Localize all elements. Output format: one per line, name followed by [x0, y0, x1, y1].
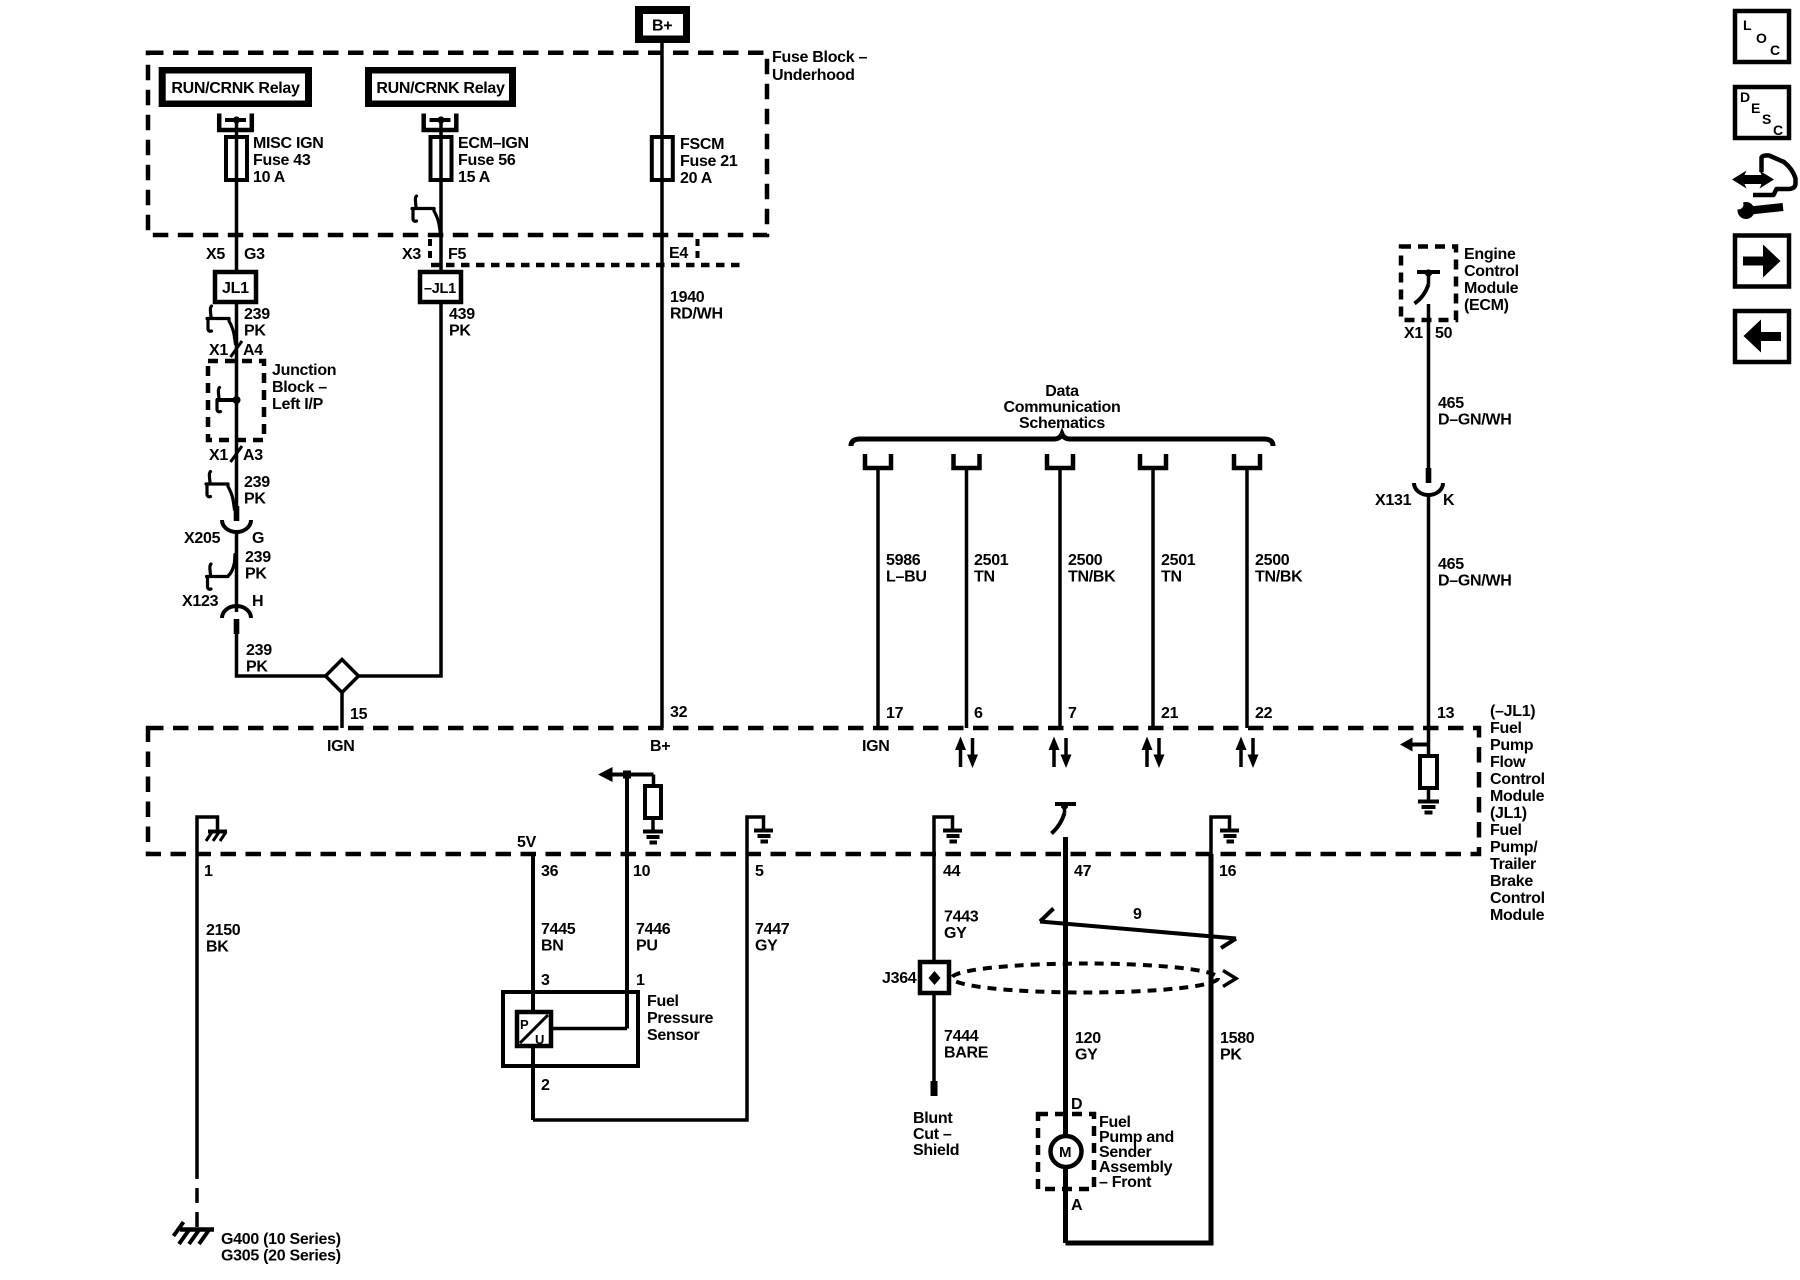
svg-text:13: 13 — [1437, 705, 1455, 722]
svg-text:(–JL1): (–JL1) — [1490, 703, 1535, 720]
svg-text:PK: PK — [244, 491, 266, 508]
svg-text:239: 239 — [244, 474, 270, 491]
svg-text:(ECM): (ECM) — [1464, 297, 1509, 314]
svg-text:22: 22 — [1255, 705, 1273, 722]
svg-text:Sensor: Sensor — [647, 1027, 700, 1044]
svg-text:15 A: 15 A — [458, 169, 491, 186]
svg-text:– Front: – Front — [1099, 1174, 1152, 1191]
svg-text:MISC IGN: MISC IGN — [253, 135, 324, 152]
svg-text:GY: GY — [755, 938, 778, 955]
svg-text:RUN/CRNK Relay: RUN/CRNK Relay — [376, 80, 505, 97]
svg-text:C: C — [1773, 122, 1783, 138]
svg-text:Fuel: Fuel — [1490, 822, 1522, 839]
svg-text:M: M — [1059, 1144, 1071, 1161]
svg-text:O: O — [1756, 30, 1767, 46]
svg-text:G400 (10 Series): G400 (10 Series) — [221, 1231, 341, 1248]
svg-text:239: 239 — [246, 642, 272, 659]
svg-text:10: 10 — [633, 863, 651, 880]
svg-text:–JL1: –JL1 — [424, 281, 456, 297]
svg-text:2150: 2150 — [206, 922, 241, 939]
svg-text:15: 15 — [350, 706, 368, 723]
svg-text:Left I/P: Left I/P — [272, 396, 324, 413]
svg-text:S: S — [1762, 111, 1771, 127]
svg-text:2501: 2501 — [974, 552, 1009, 569]
svg-text:X205: X205 — [184, 530, 221, 547]
svg-text:32: 32 — [670, 704, 688, 721]
svg-text:X131: X131 — [1375, 492, 1412, 509]
svg-text:J364: J364 — [882, 970, 917, 987]
svg-text:Trailer: Trailer — [1490, 856, 1536, 873]
svg-text:TN: TN — [1161, 569, 1182, 586]
svg-text:7443: 7443 — [944, 909, 979, 926]
svg-text:120: 120 — [1075, 1030, 1101, 1047]
svg-text:7447: 7447 — [755, 921, 790, 938]
svg-text:Module: Module — [1490, 788, 1545, 805]
svg-text:2501: 2501 — [1161, 552, 1196, 569]
svg-text:2: 2 — [541, 1077, 550, 1094]
svg-text:44: 44 — [943, 863, 961, 880]
svg-text:G305 (20 Series): G305 (20 Series) — [221, 1248, 341, 1265]
svg-text:ECM–IGN: ECM–IGN — [458, 135, 529, 152]
svg-text:X5: X5 — [206, 246, 225, 263]
svg-text:Engine: Engine — [1464, 246, 1516, 263]
svg-text:36: 36 — [541, 863, 559, 880]
svg-text:6: 6 — [974, 705, 983, 722]
svg-text:Data: Data — [1045, 383, 1079, 400]
svg-text:E: E — [1751, 100, 1760, 116]
svg-text:G: G — [252, 530, 264, 547]
svg-text:X1: X1 — [209, 342, 228, 359]
svg-text:X3: X3 — [402, 246, 421, 263]
svg-text:Module: Module — [1490, 907, 1545, 924]
svg-text:7446: 7446 — [636, 921, 671, 938]
svg-text:K: K — [1443, 492, 1455, 509]
svg-text:G3: G3 — [244, 246, 265, 263]
svg-text:JL1: JL1 — [222, 280, 249, 297]
svg-text:1580: 1580 — [1220, 1030, 1255, 1047]
svg-text:Pump/: Pump/ — [1490, 839, 1538, 856]
svg-text:Cut –: Cut – — [913, 1126, 952, 1143]
svg-text:PK: PK — [244, 323, 266, 340]
svg-text:U: U — [535, 1032, 544, 1047]
svg-text:Underhood: Underhood — [772, 67, 855, 84]
svg-text:P: P — [520, 1017, 529, 1032]
svg-text:X123: X123 — [182, 593, 219, 610]
svg-text:PK: PK — [449, 323, 471, 340]
svg-text:D–GN/WH: D–GN/WH — [1438, 412, 1511, 429]
svg-text:1: 1 — [204, 863, 213, 880]
svg-text:Fuel: Fuel — [1490, 720, 1522, 737]
svg-text:PK: PK — [1220, 1047, 1242, 1064]
svg-text:D: D — [1071, 1096, 1082, 1113]
svg-text:TN: TN — [974, 569, 995, 586]
svg-text:D: D — [1740, 89, 1750, 105]
svg-text:Control: Control — [1464, 263, 1519, 280]
svg-text:GY: GY — [944, 925, 967, 942]
svg-text:7444: 7444 — [944, 1028, 979, 1045]
svg-text:F5: F5 — [448, 246, 466, 263]
svg-text:Shield: Shield — [913, 1142, 959, 1159]
svg-text:PK: PK — [245, 566, 267, 583]
svg-text:GY: GY — [1075, 1047, 1098, 1064]
svg-text:Module: Module — [1464, 280, 1519, 297]
svg-text:B+: B+ — [650, 738, 670, 755]
svg-text:E4: E4 — [669, 245, 688, 262]
svg-text:X1: X1 — [1404, 325, 1423, 342]
svg-text:C: C — [1770, 42, 1780, 58]
svg-text:50: 50 — [1435, 325, 1453, 342]
svg-text:1: 1 — [636, 972, 645, 989]
svg-text:Junction: Junction — [272, 362, 336, 379]
svg-text:A3: A3 — [243, 447, 263, 464]
svg-text:5986: 5986 — [886, 552, 921, 569]
svg-text:Control: Control — [1490, 771, 1545, 788]
svg-text:BK: BK — [206, 939, 229, 956]
svg-text:Flow: Flow — [1490, 754, 1526, 771]
svg-text:Fuse Block –: Fuse Block – — [772, 49, 868, 66]
svg-text:X1: X1 — [209, 447, 228, 464]
svg-text:17: 17 — [886, 705, 904, 722]
svg-text:TN/BK: TN/BK — [1068, 569, 1116, 586]
svg-text:TN/BK: TN/BK — [1255, 569, 1303, 586]
svg-text:(JL1): (JL1) — [1490, 805, 1527, 822]
svg-text:2500: 2500 — [1255, 552, 1290, 569]
svg-text:Fuse 56: Fuse 56 — [458, 152, 516, 169]
svg-text:BN: BN — [541, 938, 564, 955]
svg-text:RD/WH: RD/WH — [670, 306, 723, 323]
svg-text:20 A: 20 A — [680, 170, 713, 187]
svg-text:Control: Control — [1490, 890, 1545, 907]
svg-text:439: 439 — [449, 306, 475, 323]
svg-text:B+: B+ — [652, 18, 672, 35]
svg-text:D–GN/WH: D–GN/WH — [1438, 573, 1511, 590]
svg-text:Pressure: Pressure — [647, 1010, 713, 1027]
svg-text:A4: A4 — [243, 342, 263, 359]
svg-text:BARE: BARE — [944, 1045, 989, 1062]
svg-text:7: 7 — [1068, 705, 1077, 722]
svg-text:465: 465 — [1438, 395, 1464, 412]
svg-text:47: 47 — [1074, 863, 1092, 880]
svg-text:465: 465 — [1438, 556, 1464, 573]
svg-text:Blunt: Blunt — [913, 1110, 953, 1127]
svg-text:1940: 1940 — [670, 289, 705, 306]
svg-text:IGN: IGN — [327, 738, 355, 755]
svg-text:Fuel: Fuel — [647, 993, 679, 1010]
svg-text:5: 5 — [755, 863, 764, 880]
svg-text:L–BU: L–BU — [886, 569, 927, 586]
svg-text:RUN/CRNK Relay: RUN/CRNK Relay — [171, 80, 300, 97]
svg-text:PK: PK — [246, 659, 268, 676]
svg-text:9: 9 — [1133, 906, 1142, 923]
svg-text:Communication: Communication — [1004, 399, 1121, 416]
svg-text:L: L — [1743, 17, 1752, 33]
svg-text:5V: 5V — [517, 834, 537, 851]
svg-text:16: 16 — [1219, 863, 1237, 880]
svg-text:3: 3 — [541, 972, 550, 989]
svg-text:Fuse 43: Fuse 43 — [253, 152, 311, 169]
svg-text:239: 239 — [244, 306, 270, 323]
svg-text:Fuse 21: Fuse 21 — [680, 153, 738, 170]
svg-text:Pump: Pump — [1490, 737, 1534, 754]
svg-text:IGN: IGN — [862, 738, 890, 755]
svg-text:10 A: 10 A — [253, 169, 286, 186]
svg-text:Brake: Brake — [1490, 873, 1533, 890]
svg-text:FSCM: FSCM — [680, 136, 724, 153]
svg-text:2500: 2500 — [1068, 552, 1103, 569]
svg-text:H: H — [252, 593, 263, 610]
svg-text:7445: 7445 — [541, 921, 576, 938]
svg-text:A: A — [1071, 1197, 1083, 1214]
svg-text:PU: PU — [636, 938, 658, 955]
svg-text:21: 21 — [1161, 705, 1179, 722]
svg-text:Block –: Block – — [272, 379, 327, 396]
svg-text:239: 239 — [245, 549, 271, 566]
